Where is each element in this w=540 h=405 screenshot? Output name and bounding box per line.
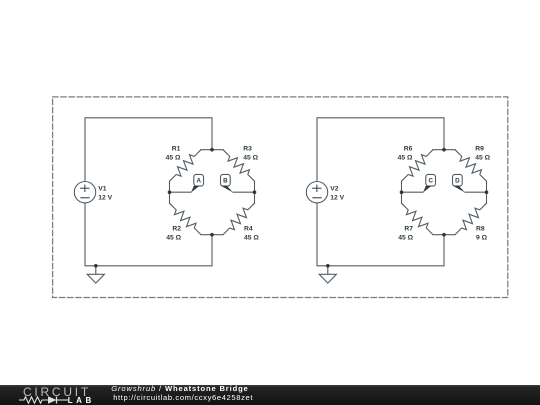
resistor R3: [223, 150, 255, 182]
svg-text:45 Ω: 45 Ω: [166, 235, 181, 242]
resistor R2: [170, 203, 202, 235]
svg-text:9 Ω: 9 Ω: [476, 235, 488, 242]
node C flag pointer: [423, 186, 432, 193]
wire bottom right circuit: [317, 203, 444, 266]
svg-text:V2: V2: [330, 186, 339, 193]
resistor R1: [170, 150, 202, 182]
node A flag pointer: [191, 186, 200, 193]
svg-text:D: D: [455, 178, 460, 185]
svg-text:R1: R1: [172, 145, 181, 152]
node D flag box: [453, 174, 463, 186]
resistor R4: [223, 203, 255, 235]
logo schematic glyph: wire, resistor zigzag, diode: [15, 394, 95, 405]
svg-text:45 Ω: 45 Ω: [398, 235, 413, 242]
junction dot ground left: [94, 264, 98, 268]
resistor R9: [455, 150, 487, 182]
resistor R8: [455, 203, 487, 235]
svg-text:45 Ω: 45 Ω: [243, 155, 258, 162]
bridge frame wires right: [402, 150, 487, 235]
CircuitLab logo text: [23, 385, 91, 399]
node A stub wire: [170, 191, 192, 193]
svg-text:A: A: [196, 178, 201, 185]
svg-text:C: C: [428, 178, 433, 185]
node D flag pointer: [453, 186, 465, 193]
svg-text:12 V: 12 V: [330, 195, 344, 202]
node D stub wire: [465, 191, 487, 193]
node A flag box: [194, 174, 204, 186]
svg-text:R6: R6: [404, 145, 413, 152]
svg-text:R9: R9: [475, 145, 484, 152]
node C flag box: [426, 174, 436, 186]
svg-text:45 Ω: 45 Ω: [244, 235, 259, 242]
resistor R7: [402, 203, 434, 235]
footer title line: [111, 384, 248, 393]
voltage source V1: [74, 182, 95, 203]
wire top right circuit: [317, 118, 444, 182]
svg-text:R3: R3: [243, 145, 252, 152]
resistor R6: [402, 150, 434, 182]
svg-text:B: B: [223, 178, 228, 185]
node B flag pointer: [221, 186, 233, 193]
junction dots left bridge: [210, 148, 214, 152]
wire top left circuit: [85, 118, 212, 182]
voltage source V2: [306, 182, 327, 203]
dashed selection border: [53, 97, 508, 298]
svg-text:45 Ω: 45 Ω: [398, 155, 413, 162]
svg-text:R4: R4: [244, 226, 253, 233]
svg-text:R7: R7: [404, 226, 413, 233]
diode triangle: [48, 396, 57, 403]
svg-text:R8: R8: [476, 226, 485, 233]
node B flag box: [221, 174, 231, 186]
junction dot ground right: [326, 264, 330, 268]
svg-text:45 Ω: 45 Ω: [475, 155, 490, 162]
svg-text:45 Ω: 45 Ω: [166, 155, 181, 162]
ground left: [87, 266, 104, 283]
footer url line: [113, 393, 253, 402]
node B stub wire: [233, 191, 255, 193]
svg-text:V1: V1: [98, 186, 107, 193]
junction dots right bridge: [442, 148, 446, 152]
wire bottom left circuit: [85, 203, 212, 266]
svg-text:12 V: 12 V: [98, 195, 112, 202]
ground right: [319, 266, 336, 283]
node C stub wire: [402, 191, 424, 193]
footer bar: [0, 385, 540, 405]
svg-text:R2: R2: [172, 226, 181, 233]
bridge frame wires left: [170, 150, 255, 235]
